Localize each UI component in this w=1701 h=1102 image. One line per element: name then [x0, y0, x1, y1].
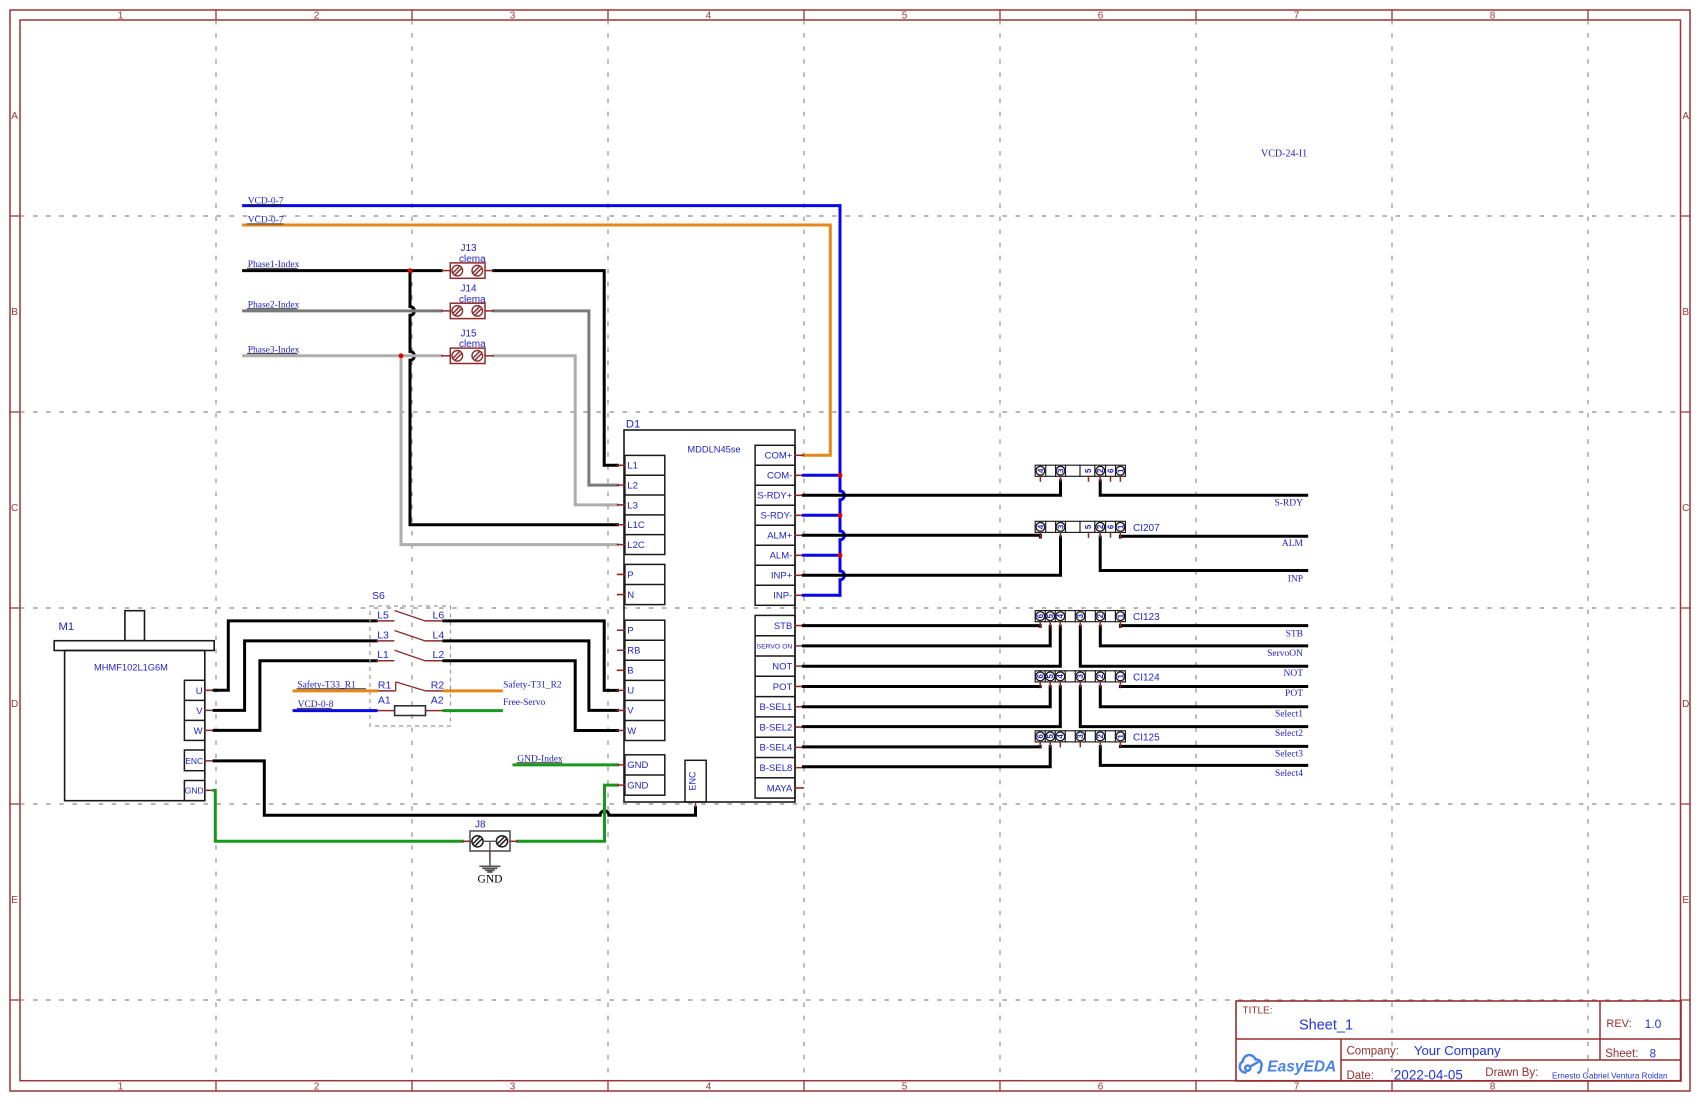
svg-text:B: B [11, 307, 18, 318]
svg-text:clema: clema [459, 294, 486, 305]
svg-text:N: N [627, 590, 634, 601]
switch L1-L2 [376, 660, 394, 662]
svg-text:1: 1 [1116, 613, 1125, 618]
svg-text:P: P [627, 626, 633, 637]
svg-text:L3: L3 [377, 629, 389, 641]
svg-text:Your Company: Your Company [1414, 1043, 1501, 1058]
svg-text:A2: A2 [431, 694, 444, 706]
connector J8 [470, 831, 510, 851]
wire Safety-T33_R1 orange [294, 689, 376, 692]
svg-text:1: 1 [1116, 734, 1125, 739]
svg-text:4: 4 [1056, 734, 1065, 739]
svg-text:D1: D1 [626, 419, 640, 431]
connector CI124 [1035, 671, 1125, 682]
svg-text:W: W [194, 726, 203, 737]
wire S6 L4 to D1 V [444, 641, 618, 711]
wire Free-Servo green [444, 709, 501, 712]
svg-text:3: 3 [510, 11, 516, 22]
svg-text:Select1: Select1 [1275, 709, 1303, 719]
svg-text:Safety-T31_R2: Safety-T31_R2 [503, 680, 562, 691]
svg-text:GND: GND [185, 786, 204, 796]
junction S-RDY- [838, 513, 843, 518]
wire Phase1 branch to L1C [410, 271, 618, 525]
svg-text:2: 2 [1096, 524, 1105, 529]
wire CI124 pin1 to POT label [1120, 685, 1306, 688]
svg-text:INP-: INP- [773, 591, 792, 602]
svg-text:6: 6 [1098, 11, 1104, 22]
motor M1 flange [54, 641, 214, 651]
J8 pin stubs [462, 841, 517, 858]
wire motor U to S6 L5 [214, 621, 376, 690]
svg-text:2: 2 [1096, 468, 1105, 473]
D1 left pins GND GND [625, 755, 665, 795]
wire J15 to D1 L3 [494, 356, 618, 505]
svg-text:Date:: Date: [1347, 1070, 1375, 1082]
svg-text:2: 2 [314, 1081, 320, 1092]
wire net VCD-0-7 orange [244, 225, 831, 455]
wire green J8 to D1 GND [518, 785, 618, 841]
svg-text:J13: J13 [461, 243, 478, 254]
svg-text:6: 6 [1036, 734, 1045, 739]
svg-text:Company:: Company: [1347, 1046, 1399, 1058]
svg-text:L1: L1 [377, 649, 389, 661]
junction Phase3 branch [399, 353, 404, 358]
svg-text:B: B [627, 666, 633, 677]
ground symbol GND [489, 859, 491, 866]
wire STB to CI123 pin6 [803, 624, 1040, 628]
svg-text:M1: M1 [59, 621, 75, 633]
svg-text:L1: L1 [627, 461, 638, 472]
svg-text:8: 8 [1650, 1049, 1656, 1061]
svg-text:ALM: ALM [1282, 539, 1304, 549]
wire motor V to S6 L3 [214, 641, 376, 711]
svg-text:4: 4 [1056, 674, 1065, 679]
svg-text:8: 8 [1490, 11, 1496, 22]
wire B-SEL1 to CI124 pin5 [803, 687, 1050, 707]
wire S-RDY+ to CN pin3 [803, 481, 1060, 495]
svg-text:ENC: ENC [688, 771, 698, 791]
wire COM- blue [803, 474, 840, 477]
svg-text:C: C [1682, 503, 1689, 514]
svg-text:2: 2 [1096, 674, 1105, 679]
svg-text:ServoON: ServoON [1267, 649, 1303, 659]
svg-text:INP: INP [1288, 574, 1303, 584]
svg-text:SERVO ON: SERVO ON [757, 643, 793, 650]
D1 right pins STB .. MAYA [755, 615, 795, 798]
motor pin box GND [184, 781, 204, 801]
svg-text:ALM+: ALM+ [767, 531, 793, 542]
svg-text:STB: STB [1286, 629, 1303, 639]
svg-text:1.0: 1.0 [1645, 1017, 1662, 1031]
svg-text:4: 4 [1036, 468, 1045, 473]
svg-text:3: 3 [1076, 613, 1085, 618]
svg-text:5: 5 [1084, 524, 1093, 529]
svg-text:U: U [196, 686, 203, 697]
svg-text:3: 3 [1056, 468, 1065, 473]
svg-text:S-RDY-: S-RDY- [760, 511, 792, 522]
wire CI124 pin2 to Select1 label [1100, 687, 1306, 707]
svg-text:MAYA: MAYA [767, 783, 793, 794]
D1 right pins COM+ .. INP- [755, 445, 795, 605]
wire VCD-0-8 blue [294, 709, 376, 712]
connector J13 clema [441, 270, 450, 272]
svg-text:1: 1 [118, 11, 124, 22]
svg-text:POT: POT [1285, 689, 1303, 699]
svg-text:2: 2 [314, 11, 320, 22]
wire INP+ to CI207 pin3 [803, 537, 1060, 575]
wire motor W to S6 L1 [214, 661, 376, 731]
svg-text:R1: R1 [378, 679, 392, 691]
svg-text:2022-04-05: 2022-04-05 [1394, 1068, 1463, 1083]
svg-text:S6: S6 [372, 590, 385, 602]
svg-text:B-SEL4: B-SEL4 [760, 743, 793, 754]
wire J14 to D1 L2 [494, 311, 618, 485]
svg-text:CI125: CI125 [1133, 732, 1160, 743]
svg-text:3: 3 [1056, 524, 1065, 529]
svg-text:VCD-24-I1: VCD-24-I1 [1261, 148, 1307, 159]
svg-text:CI123: CI123 [1133, 612, 1160, 623]
svg-text:ENC: ENC [185, 756, 203, 766]
fuse A1-A2 [376, 710, 395, 712]
svg-text:5: 5 [1046, 674, 1055, 679]
svg-text:6: 6 [1036, 674, 1045, 679]
wire J13 to D1 L1 [494, 271, 618, 466]
motor M1 shaft [125, 611, 145, 641]
svg-text:POT: POT [773, 682, 793, 693]
wire ALM+ to CI207 pin4 [803, 535, 1040, 537]
wire ALM- blue [803, 554, 840, 557]
svg-text:D: D [1682, 699, 1689, 710]
svg-text:CI207: CI207 [1133, 523, 1160, 534]
svg-text:ALM-: ALM- [770, 551, 793, 562]
svg-text:W: W [627, 726, 636, 737]
wire GND-Index green [514, 763, 618, 766]
wire B-SEL2 to CI124 pin4 [803, 687, 1060, 727]
svg-text:Ernesto Gabriel Ventura Roldan: Ernesto Gabriel Ventura Roldan [1552, 1072, 1668, 1081]
wire CI124 pin3 to Select2 label [1080, 687, 1306, 727]
svg-text:1: 1 [1116, 524, 1125, 529]
svg-text:Sheet_1: Sheet_1 [1299, 1018, 1353, 1034]
D1 left pins P RB B U V W [625, 620, 665, 740]
wire Safety-T31_R2 orange [444, 689, 501, 692]
svg-text:MHMF102L1G6M: MHMF102L1G6M [94, 662, 168, 672]
driver D1 outline [624, 430, 795, 802]
wire S6 L6 to D1 U [444, 621, 618, 691]
svg-text:Select4: Select4 [1275, 769, 1303, 779]
svg-text:CI124: CI124 [1133, 672, 1160, 683]
svg-text:TITLE:: TITLE: [1243, 1006, 1273, 1017]
motor pin box ENC [184, 750, 204, 771]
title block outline [1236, 1001, 1681, 1081]
svg-text:B-SEL2: B-SEL2 [760, 722, 793, 733]
svg-text:clema: clema [459, 339, 486, 350]
svg-text:5: 5 [1084, 468, 1093, 473]
switch L5-L6 [376, 620, 394, 622]
svg-text:COM-: COM- [767, 471, 792, 482]
connector CN (unnamed) [1035, 465, 1125, 476]
svg-text:A: A [11, 111, 18, 122]
D1 ENC pin stub [695, 802, 697, 808]
svg-text:V: V [196, 706, 203, 717]
svg-text:Select3: Select3 [1275, 749, 1303, 759]
svg-text:L2C: L2C [627, 540, 645, 551]
wire B-SEL4 to CI125 pin6 [803, 745, 1040, 748]
svg-text:5: 5 [1046, 734, 1055, 739]
svg-text:Drawn By:: Drawn By: [1485, 1067, 1538, 1079]
junction ALM- [838, 553, 843, 558]
svg-text:2: 2 [1096, 613, 1105, 618]
svg-text:S-RDY: S-RDY [1274, 499, 1303, 509]
svg-text:5: 5 [1046, 613, 1055, 618]
wire net VCD-0-7 blue [244, 206, 845, 596]
svg-text:4: 4 [1056, 613, 1065, 618]
junction Phase1 branch [408, 268, 413, 273]
wire S-RDY- blue [803, 514, 840, 517]
motor pin box U V W [184, 680, 204, 740]
svg-text:6: 6 [1098, 1081, 1104, 1092]
junction COM- [838, 473, 843, 478]
svg-text:COM+: COM+ [765, 451, 793, 462]
connector CI123 [1035, 611, 1125, 622]
svg-text:MDDLN45se: MDDLN45se [687, 445, 740, 455]
svg-text:1: 1 [1116, 468, 1125, 473]
svg-text:6: 6 [1036, 613, 1045, 618]
wire POT to CI124 pin6 [803, 685, 1040, 688]
svg-text:L2: L2 [627, 480, 638, 491]
svg-text:INP+: INP+ [771, 571, 793, 582]
svg-text:EasyEDA: EasyEDA [1267, 1059, 1336, 1076]
D1 left pins P N [625, 564, 665, 604]
svg-text:GND: GND [627, 780, 648, 791]
svg-text:6: 6 [1106, 524, 1115, 529]
D1 ENC box [685, 760, 706, 802]
svg-text:J8: J8 [475, 820, 486, 831]
svg-text:J14: J14 [461, 284, 478, 295]
svg-text:REV:: REV: [1606, 1018, 1631, 1030]
wire INP- blue [803, 594, 840, 597]
wire CI123 pin3 to NOT label [1080, 626, 1306, 666]
svg-text:U: U [627, 686, 634, 697]
connector J14 clema [441, 310, 450, 312]
connector J15 clema [441, 355, 450, 357]
wire CI125 pin2 to Select4 label [1100, 747, 1306, 766]
svg-text:P: P [627, 570, 633, 581]
wire CI125 pin1 to Select3 label [1120, 745, 1306, 748]
svg-text:1: 1 [1116, 674, 1125, 679]
svg-text:B-SEL8: B-SEL8 [760, 763, 793, 774]
svg-text:NOT: NOT [772, 661, 792, 672]
wire CI123 pin2 to ServoON label [1100, 626, 1306, 646]
wire B-SEL8 to CI125 pin5 [803, 747, 1050, 767]
connector CI207 [1035, 521, 1125, 532]
svg-text:5: 5 [902, 11, 908, 22]
D1 left pins L1 L2 L3 L1C L2C [625, 455, 665, 554]
wire Phase1-Index to J13 [244, 269, 442, 272]
svg-text:V: V [627, 706, 634, 717]
svg-text:8: 8 [1490, 1081, 1496, 1092]
svg-text:GND: GND [627, 760, 648, 771]
svg-text:2: 2 [1096, 734, 1105, 739]
wire CI123 pin1 to STB label [1120, 624, 1306, 628]
svg-text:3: 3 [1076, 674, 1085, 679]
svg-text:C: C [11, 503, 18, 514]
wire NOT to CI123 pin4 [803, 626, 1060, 666]
svg-text:J15: J15 [461, 328, 478, 339]
svg-text:Select2: Select2 [1275, 729, 1303, 739]
wire SERVO ON to CI123 pin5 [803, 626, 1050, 646]
svg-text:L5: L5 [377, 609, 389, 621]
wire motor GND green to J8 [214, 790, 462, 841]
svg-text:4: 4 [1036, 524, 1045, 529]
svg-text:6: 6 [1106, 468, 1115, 473]
svg-text:B: B [1682, 307, 1689, 318]
switch block S6 outline [370, 606, 451, 726]
connector CI125 [1035, 731, 1125, 742]
svg-text:E: E [11, 895, 18, 906]
wire motor ENC to D1 ENC [214, 761, 695, 815]
svg-text:7: 7 [1294, 1081, 1300, 1092]
wire CN pin2 to S-RDY label [1100, 481, 1307, 495]
svg-text:4: 4 [706, 1081, 712, 1092]
svg-text:D: D [11, 699, 18, 710]
svg-text:A1: A1 [378, 694, 391, 706]
svg-text:S-RDY+: S-RDY+ [757, 491, 793, 502]
svg-text:A: A [1682, 111, 1689, 122]
svg-text:1: 1 [118, 1081, 124, 1092]
svg-text:clema: clema [459, 254, 486, 265]
svg-text:3: 3 [510, 1081, 516, 1092]
motor M1 body [65, 651, 205, 801]
svg-text:GND: GND [478, 873, 503, 885]
svg-text:L3: L3 [627, 500, 638, 511]
svg-text:4: 4 [706, 11, 712, 22]
wire CI207 pin2 to INP label [1100, 537, 1307, 571]
EasyEDA logo [1240, 1055, 1262, 1073]
switch L3-L4 [376, 640, 394, 642]
switch R1-R2 [376, 690, 396, 692]
wire Phase2-Index to J14 [244, 309, 442, 312]
svg-text:NOT: NOT [1283, 669, 1303, 679]
D1 left pin stubs [618, 465, 625, 785]
svg-text:7: 7 [1294, 11, 1300, 22]
svg-text:5: 5 [902, 1081, 908, 1092]
svg-text:Free-Servo: Free-Servo [503, 698, 545, 708]
svg-text:E: E [1682, 895, 1689, 906]
wire S6 L2 to D1 W [444, 661, 618, 731]
wire CI207 pin1 to ALM label [1120, 535, 1306, 539]
svg-text:STB: STB [774, 621, 792, 632]
svg-text:3: 3 [1076, 734, 1085, 739]
svg-text:L1C: L1C [627, 520, 645, 531]
D1 right pin stubs [795, 455, 803, 788]
wire Phase3-Index to J15 [244, 354, 442, 357]
svg-text:RB: RB [627, 646, 640, 657]
svg-text:B-SEL1: B-SEL1 [760, 702, 793, 713]
wire Phase3 branch to L2C [401, 356, 618, 545]
svg-text:R2: R2 [431, 679, 445, 691]
motor pin stubs [205, 690, 214, 790]
svg-text:Sheet:: Sheet: [1605, 1048, 1638, 1060]
